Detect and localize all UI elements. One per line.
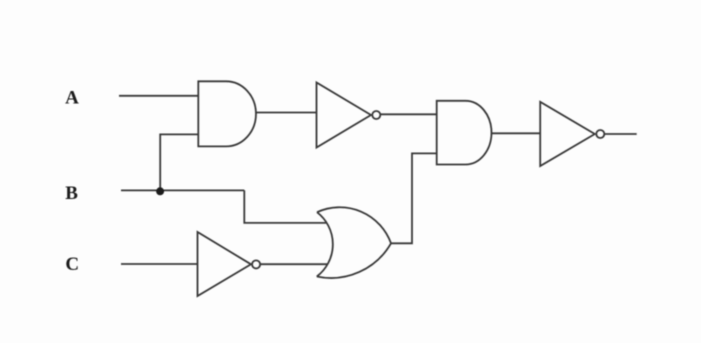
svg-text:A: A [65,88,79,109]
svg-text:B: B [65,183,78,204]
svg-text:C: C [65,254,79,275]
